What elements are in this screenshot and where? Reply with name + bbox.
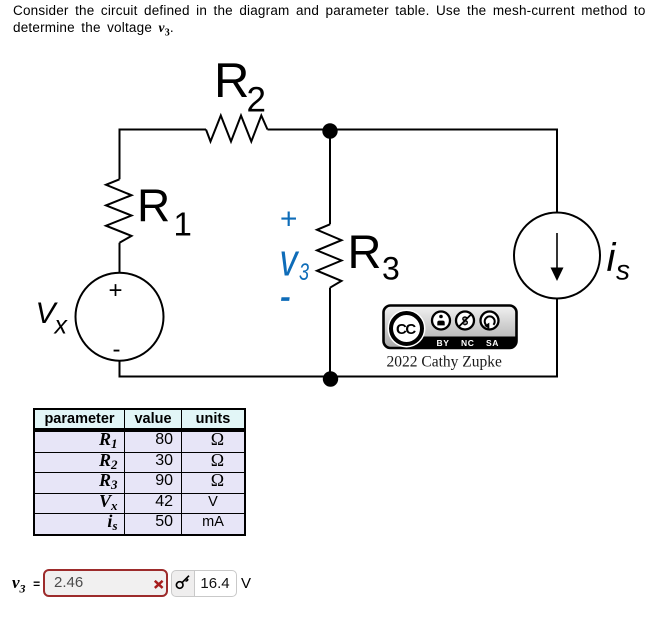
svg-text:$: $ <box>462 316 469 328</box>
svg-text:i: i <box>607 236 617 280</box>
svg-text:R: R <box>214 54 249 108</box>
svg-text:-: - <box>113 336 121 363</box>
svg-text:2022 Cathy Zupke: 2022 Cathy Zupke <box>387 354 502 371</box>
svg-text:R: R <box>348 225 382 278</box>
svg-text:R: R <box>137 180 170 232</box>
svg-text:s: s <box>616 255 630 286</box>
svg-text:3: 3 <box>382 251 400 287</box>
svg-text:v: v <box>280 235 300 286</box>
svg-text:SA: SA <box>486 338 499 348</box>
svg-text:CC: CC <box>396 321 416 338</box>
svg-text:NC: NC <box>461 338 474 348</box>
svg-text:3: 3 <box>299 260 309 286</box>
svg-text:+: + <box>109 277 123 304</box>
svg-text:+: + <box>280 203 298 236</box>
svg-text:1: 1 <box>174 206 192 243</box>
svg-text:2: 2 <box>247 81 266 120</box>
svg-text:x: x <box>54 312 69 340</box>
svg-text:BY: BY <box>437 338 450 348</box>
